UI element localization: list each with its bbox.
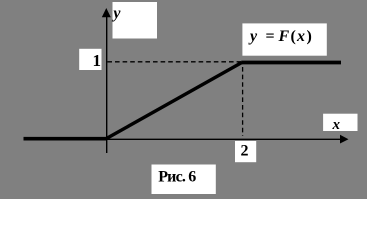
caption box <box>152 165 216 195</box>
x-axis arrowhead <box>340 135 349 144</box>
svg-text:F: F <box>278 28 290 45</box>
x-axis line <box>106 138 341 140</box>
function segment y=0 for x&lt;0 <box>24 137 107 141</box>
svg-text:): ) <box>307 28 312 45</box>
svg-text:x: x <box>332 117 341 133</box>
tick label box 1 <box>79 49 101 70</box>
dashed line x=2 from (2,1) to x-axis <box>242 67 244 136</box>
label text y = F(x) <box>248 28 312 45</box>
dashed line y=1 from axis to (2,1) <box>107 61 243 63</box>
svg-text:=: = <box>266 28 275 45</box>
function segment y=1 for x&gt;2 <box>241 61 341 65</box>
empty white label box (top, right of y-axis) <box>113 2 158 39</box>
svg-text:y: y <box>248 28 258 45</box>
svg-text:2: 2 <box>241 143 249 160</box>
tick label box 2 <box>235 141 256 162</box>
svg-text:y: y <box>111 5 121 22</box>
y-axis line <box>106 12 108 153</box>
function segment rising (0,0)-(2,1) <box>106 63 242 139</box>
svg-text:(: ( <box>291 28 296 45</box>
svg-text:x: x <box>296 28 305 45</box>
svg-text:1: 1 <box>93 51 102 70</box>
label box y = F(x) <box>242 23 326 55</box>
y-axis arrowhead <box>102 8 111 17</box>
svg-text:Рис. 6: Рис. 6 <box>158 168 196 185</box>
x-axis label box <box>323 114 357 131</box>
